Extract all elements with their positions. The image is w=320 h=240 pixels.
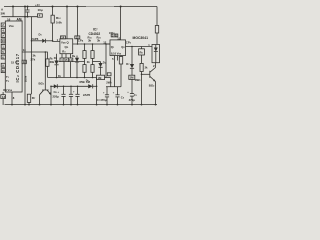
- diode D2 right: [98, 61, 106, 78]
- wire x106 down to bus: [105, 44, 107, 78]
- wire cap line right y89: [106, 86, 121, 88]
- svg-text:68k: 68k: [50, 60, 55, 64]
- diode LED inside MOC: [154, 45, 158, 63]
- capacitor mid2: [73, 86, 80, 105]
- op IC2 box middle: [60, 39, 73, 54]
- wire IC3 right to MOC: [126, 46, 153, 48]
- node pin box 13 bottom left: [1, 95, 6, 99]
- wire top supply rail: [4, 6, 157, 8]
- node junction x51: [50, 86, 52, 88]
- wire MOC pin2 to BG2 collector: [155, 63, 157, 68]
- svg-text:3k: 3k: [88, 39, 92, 43]
- wire second rail (VDD line): [2, 16, 38, 18]
- resistor top right on x157: [155, 7, 158, 45]
- svg-text:1M: 1M: [130, 76, 135, 80]
- wire x25.5 long vertical: [24, 17, 26, 105]
- wire bottom bus y77.5: [48, 77, 97, 79]
- wire IC2 bottom bus: [59, 61, 85, 63]
- svg-text:1M: 1M: [98, 76, 103, 80]
- svg-text:27k: 27k: [31, 58, 36, 62]
- node junction pin14 wire x45: [45, 51, 47, 53]
- capacitor C9 right: [115, 87, 124, 105]
- resistor R6 bottom left: [27, 94, 36, 105]
- wire mid tie y61.5: [93, 61, 101, 63]
- svg-text:15 R: 15 R: [11, 61, 17, 65]
- svg-text:CD4022: CD4022: [89, 32, 101, 36]
- wire x96.6 down: [96, 78, 98, 106]
- wire diode line y86.3: [51, 85, 88, 87]
- transistor BG2: [142, 68, 156, 105]
- svg-text:11: 11: [2, 69, 5, 73]
- wire bottom ground rail: [5, 104, 158, 106]
- svg-text:10: 10: [2, 39, 6, 43]
- svg-text:470µ: 470µ: [129, 98, 136, 102]
- wire IC3 bottom stubs: [113, 56, 115, 87]
- node dot on second rail: [24, 16, 26, 18]
- wire IC2 bottom stubs: [61, 54, 63, 58]
- resistor R9 box: [139, 47, 145, 56]
- wire IC1 pin13 stub: [2, 92, 4, 95]
- op IC1 box CD4017: [5, 21, 22, 92]
- wire x120.6 rail to IC3: [120, 7, 122, 40]
- diode D6 2AP6: [58, 74, 97, 97]
- wire drop x13 rail to VDD line: [12, 7, 14, 17]
- svg-text:3W: 3W: [1, 12, 6, 16]
- diode D7: [126, 62, 134, 75]
- label IC1 pin numbers: [2, 23, 6, 73]
- svg-text:3k: 3k: [97, 39, 101, 43]
- svg-text:C=470µ: C=470µ: [97, 98, 107, 102]
- svg-text:14B: 14B: [112, 34, 117, 38]
- svg-text:C8 +: C8 +: [54, 90, 60, 94]
- node IC3 top pin box: [111, 34, 118, 38]
- wire x77.5 rail down: [77, 7, 79, 36]
- wire x132 chain down: [131, 47, 133, 65]
- resistor box 1M on bus: [97, 75, 105, 80]
- diode D1 2AP6: [31, 32, 52, 43]
- svg-text:MOC3041: MOC3041: [133, 36, 149, 40]
- diode D2 on line: [54, 84, 58, 88]
- node IC2 bottom pin boxes: [60, 58, 73, 62]
- diode D4: [72, 54, 79, 78]
- node rail junction dots: [12, 6, 122, 8]
- capacitor mid1: [69, 86, 73, 105]
- capacitor C8 220u: [53, 86, 66, 105]
- op MOC3041 box: [152, 45, 160, 63]
- node pin box 15 on x77.5: [75, 36, 80, 40]
- wire CP line y44: [73, 43, 110, 45]
- diode D5: [54, 54, 59, 78]
- resistor 1M boxed right: [127, 75, 137, 105]
- svg-text:10µ: 10µ: [38, 8, 43, 12]
- transistor BG1: [39, 52, 52, 105]
- resistor R13 vertical: [46, 57, 55, 78]
- svg-text:11: 11: [117, 36, 120, 40]
- resistor column2 row1: [91, 44, 94, 58]
- capacitor C7: [25, 3, 43, 17]
- svg-text:VDD Q: VDD Q: [61, 41, 70, 45]
- wire x67 rail to IC2 top: [66, 7, 68, 39]
- svg-text:14: 14: [23, 48, 27, 52]
- resistor column2 row2: [91, 58, 94, 77]
- node IC1 right pin box 12: [22, 60, 26, 64]
- resistor column1 row2: [83, 58, 86, 77]
- resistor network column1 row1: [83, 44, 86, 58]
- node IC2 top pin box 14: [61, 36, 66, 40]
- svg-text:2AP6: 2AP6: [83, 93, 90, 97]
- node bus dots: [56, 77, 94, 79]
- svg-text:IC2 CD4017: IC2 CD4017: [15, 53, 20, 82]
- svg-text:2AP6: 2AP6: [31, 37, 38, 41]
- node D1 junctions: [31, 40, 33, 42]
- capacitor C9 470u left: [97, 87, 115, 105]
- node bottom rail dots: [11, 104, 156, 106]
- wire D1 node to IC2 pin1: [53, 40, 60, 43]
- resistor R12 5.6k: [51, 7, 62, 41]
- svg-text:13: 13: [2, 95, 6, 99]
- wire x31.5 vertical: [31, 17, 33, 95]
- wire IC1 pin14 to R13: [22, 52, 47, 59]
- node cap taps: [63, 86, 79, 88]
- node pin box 4 on x43: [38, 14, 43, 18]
- wire IC1 pin8 stub: [11, 92, 13, 105]
- svg-text:5.6k: 5.6k: [56, 21, 62, 25]
- wire pin12: [106, 43, 110, 45]
- resistor R10 vertical: [140, 55, 148, 105]
- op IC3 box right CD4022: [110, 40, 126, 56]
- node CP line dots: [77, 43, 107, 45]
- svg-text:220µ: 220µ: [53, 95, 60, 99]
- wire bus continue: [105, 77, 111, 79]
- node IC1 left pin boxes: [1, 23, 5, 73]
